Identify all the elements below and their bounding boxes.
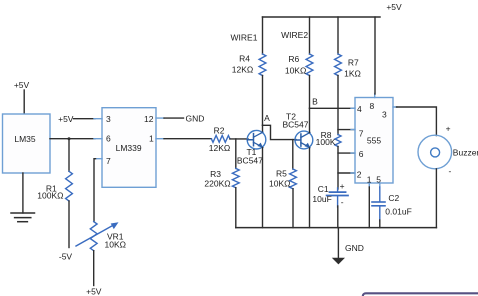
svg-text:3: 3 <box>106 114 111 124</box>
wire R1 to -5V <box>68 201 70 248</box>
wire WIRE2 (+5V bus to R6) <box>309 17 311 54</box>
resistor R3 220K <box>204 168 239 188</box>
svg-text:10KΩ: 10KΩ <box>285 66 306 76</box>
resistor R7 1K <box>335 54 361 78</box>
svg-text:R4: R4 <box>239 53 250 63</box>
svg-text:LM35: LM35 <box>14 134 36 144</box>
wire top +5V bus <box>263 16 381 18</box>
svg-text:BC547: BC547 <box>283 120 309 130</box>
svg-text:100K: 100K <box>316 137 336 147</box>
wire +5V to LM35 top <box>23 90 25 114</box>
resistor R1 100K <box>37 171 72 201</box>
node junction LM35 output / R1 <box>68 137 71 140</box>
ground (LM35) <box>11 213 35 222</box>
wire 555 pin 3 to buzzer <box>397 107 437 136</box>
svg-text:10KΩ: 10KΩ <box>105 240 126 250</box>
svg-text:10KΩ: 10KΩ <box>269 178 290 188</box>
svg-text:Buzzer: Buzzer <box>453 147 478 157</box>
wire T1 emitter to ground bus <box>262 148 264 228</box>
transistor Q1 T1 BC547 <box>237 130 266 165</box>
wire +5V bus to 555 pin 8 <box>374 17 376 94</box>
svg-text:+: + <box>446 124 451 134</box>
wire pin 12 to GND label <box>164 117 184 119</box>
wire R6 to node B <box>309 76 311 109</box>
svg-text:-: - <box>449 166 452 176</box>
wire C2 to ground bus <box>379 220 381 228</box>
svg-text:R5: R5 <box>276 168 287 178</box>
wire R4 to node A <box>262 76 264 126</box>
svg-text:+5V: +5V <box>386 2 402 12</box>
svg-text:+5V: +5V <box>14 80 30 90</box>
resistor R5 10K <box>269 168 296 188</box>
svg-text:100KΩ: 100KΩ <box>37 190 63 200</box>
svg-text:-: - <box>341 197 344 207</box>
ground (arrow style) <box>332 258 345 265</box>
svg-text:LM339: LM339 <box>116 143 142 153</box>
svg-text:220KΩ: 220KΩ <box>204 179 230 189</box>
wire R7 (+5V bus to R7) <box>337 17 339 54</box>
svg-text:BC547: BC547 <box>237 156 263 166</box>
svg-text:555: 555 <box>367 136 381 146</box>
wire pin 7 to VR1 <box>94 159 96 222</box>
wire R5 junction down <box>292 140 294 169</box>
svg-text:12: 12 <box>144 114 154 124</box>
buzzer BZ1 <box>418 124 478 177</box>
svg-text:7: 7 <box>359 129 364 139</box>
svg-text:-5V: -5V <box>59 252 73 262</box>
op-amp U1 LM339 <box>94 108 164 188</box>
resistor R6 10K <box>285 54 313 76</box>
timer U3 555 <box>351 94 397 188</box>
wire 555 pin 1 to ground bus <box>368 187 370 228</box>
svg-text:1KΩ: 1KΩ <box>344 68 361 78</box>
svg-text:C2: C2 <box>388 193 399 203</box>
resistor R8 100K <box>316 130 341 147</box>
wire C1 to ground bus <box>337 206 339 228</box>
svg-text:+5V: +5V <box>58 114 74 124</box>
svg-text:6: 6 <box>359 149 364 159</box>
svg-text:R7: R7 <box>348 57 359 67</box>
svg-text:A: A <box>264 113 270 123</box>
svg-text:+5V: +5V <box>86 286 102 296</box>
svg-text:WIRE1: WIRE1 <box>231 33 258 43</box>
svg-text:0.01uF: 0.01uF <box>385 207 411 217</box>
svg-text:1: 1 <box>367 175 372 185</box>
potentiometer VR1 10K <box>76 222 126 251</box>
svg-text:WIRE2: WIRE2 <box>281 30 308 40</box>
svg-text:GND: GND <box>186 113 205 123</box>
capacitor C1 10uF <box>312 181 348 207</box>
svg-text:2: 2 <box>357 170 362 180</box>
wire ground bus <box>236 227 437 229</box>
resistor R2 12K <box>209 126 230 154</box>
wire LM35 output to LM339 pin 6 <box>50 138 95 140</box>
wire 555 pin 5 to C2 <box>379 187 381 202</box>
svg-text:4: 4 <box>357 104 362 114</box>
svg-text:12KΩ: 12KΩ <box>232 64 253 74</box>
wire VR1 to +5V <box>93 251 95 286</box>
wire LM35 bottom to ground <box>22 173 24 213</box>
svg-text:R3: R3 <box>210 169 221 179</box>
svg-text:8: 8 <box>370 101 375 111</box>
sensor U2 LM35 <box>3 114 51 173</box>
svg-text:10uF: 10uF <box>312 194 331 204</box>
svg-text:+: + <box>340 181 345 191</box>
wire node A to T2 base <box>263 125 297 139</box>
wire buzzer to ground bus <box>435 169 437 228</box>
wire +5V to pin 3 <box>74 118 96 120</box>
wire pin 1 to R2 <box>164 138 211 140</box>
svg-text:C1: C1 <box>318 184 329 194</box>
wire R5 to ground bus <box>292 189 294 228</box>
svg-text:3: 3 <box>382 109 387 119</box>
svg-text:B: B <box>312 96 318 106</box>
wire R8 bottom through pin 6 / pin 2 to C1 <box>337 147 339 190</box>
svg-text:R2: R2 <box>214 126 225 136</box>
wire T1 collector stub <box>262 125 264 131</box>
wire T2 emitter to ground bus <box>309 148 311 228</box>
resistor R4 12K <box>232 53 266 75</box>
wire bus to ground symbol <box>337 228 339 258</box>
svg-text:7: 7 <box>106 156 111 166</box>
capacitor C2 0.01uF <box>372 193 412 221</box>
wire R2 to T1 base <box>230 138 248 140</box>
svg-text:5: 5 <box>376 175 381 185</box>
wire WIRE1 (+5V bus to R4) <box>262 17 264 54</box>
svg-text:GND: GND <box>345 243 364 253</box>
svg-text:1: 1 <box>149 134 154 144</box>
svg-text:12KΩ: 12KΩ <box>209 143 230 153</box>
wire R3 to ground bus <box>235 188 237 228</box>
svg-text:6: 6 <box>106 134 111 144</box>
wire T2 collector to node B <box>309 108 311 132</box>
wire R7 bottom to pin 7 junction <box>337 76 339 135</box>
svg-text:R6: R6 <box>288 54 299 64</box>
wire pin 7 stub <box>338 129 355 131</box>
wire node B to 555 pin 4 <box>310 107 356 109</box>
wire junction down to R1 <box>68 139 70 172</box>
wire pin 6 stub <box>338 152 355 154</box>
wire R2/R3 junction down <box>235 139 237 169</box>
decorative blue panel bottom right <box>363 293 478 296</box>
wire pin 2 stub <box>338 172 355 174</box>
transistor Q2 T2 BC547 <box>283 112 313 149</box>
